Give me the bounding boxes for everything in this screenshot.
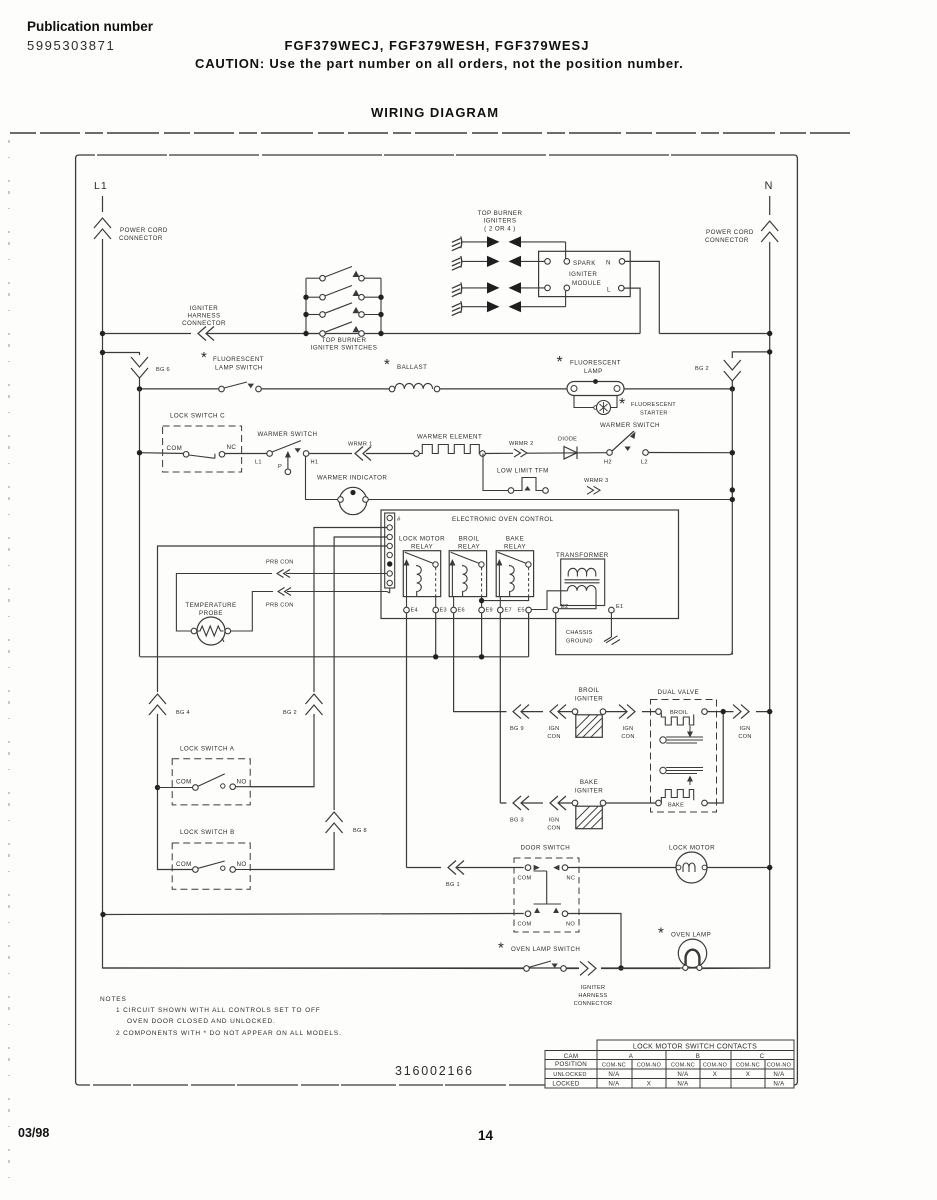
- svg-text:LOW LIMIT TFM: LOW LIMIT TFM: [497, 468, 549, 475]
- svg-text:OVEN DOOR CLOSED AND UNLOCKED.: OVEN DOOR CLOSED AND UNLOCKED.: [127, 1018, 276, 1025]
- svg-text:TEMPERATURE: TEMPERATURE: [185, 602, 236, 609]
- svg-text:BG 2: BG 2: [283, 710, 297, 716]
- svg-text:POSITION: POSITION: [555, 1061, 587, 1068]
- svg-text:E3: E3: [440, 608, 447, 614]
- svg-text:WARMER ELEMENT: WARMER ELEMENT: [417, 434, 482, 441]
- svg-text:OVEN LAMP SWITCH: OVEN LAMP SWITCH: [511, 946, 580, 953]
- svg-text:PRB CON: PRB CON: [266, 560, 294, 566]
- svg-text:LOCK SWITCH A: LOCK SWITCH A: [180, 746, 235, 753]
- svg-text:BG 9: BG 9: [510, 726, 524, 732]
- svg-text:BG 1: BG 1: [446, 882, 460, 888]
- svg-text:BAKE: BAKE: [580, 779, 598, 786]
- svg-text:2 COMPONENTS WITH * DO NOT AP: 2 COMPONENTS WITH * DO NOT APPEAR ON ALL…: [116, 1030, 342, 1037]
- svg-text:COM-NO: COM-NO: [703, 1063, 727, 1069]
- svg-text:PRB CON: PRB CON: [266, 603, 294, 609]
- svg-text:( 2 OR 4 ): ( 2 OR 4 ): [484, 226, 516, 233]
- svg-text:CONNECTOR: CONNECTOR: [182, 320, 226, 327]
- svg-text:*: *: [384, 356, 390, 373]
- svg-text:*: *: [498, 940, 504, 957]
- svg-text:FLUORESCENT: FLUORESCENT: [213, 356, 264, 363]
- svg-text:IGNITER: IGNITER: [569, 271, 597, 278]
- svg-text:X: X: [713, 1071, 717, 1078]
- svg-text:E6: E6: [458, 608, 465, 614]
- svg-text:IGN: IGN: [623, 726, 634, 732]
- svg-text:IGNITER: IGNITER: [575, 788, 603, 795]
- svg-text:TOP BURNER: TOP BURNER: [322, 337, 367, 344]
- svg-text:NC: NC: [227, 444, 237, 451]
- svg-text:*: *: [658, 925, 664, 942]
- svg-text:BG 6: BG 6: [156, 367, 170, 373]
- svg-text:BAKE: BAKE: [668, 803, 684, 809]
- svg-text:FLUORESCENT: FLUORESCENT: [631, 402, 676, 408]
- svg-text:N: N: [765, 180, 773, 192]
- svg-text:*: *: [557, 354, 563, 371]
- svg-text:BG 8: BG 8: [353, 828, 367, 834]
- svg-text:NC: NC: [567, 876, 576, 882]
- svg-text:N/A: N/A: [677, 1071, 689, 1078]
- svg-text:IGNITER SWITCHES: IGNITER SWITCHES: [311, 345, 378, 352]
- svg-text:LOCK SWITCH B: LOCK SWITCH B: [180, 829, 235, 836]
- svg-text:WRMR 1: WRMR 1: [348, 442, 372, 448]
- svg-text:LOCK MOTOR SWITCH CONTACTS: LOCK MOTOR SWITCH CONTACTS: [633, 1044, 757, 1051]
- svg-text:N/A: N/A: [773, 1071, 785, 1078]
- svg-text:SPARK: SPARK: [573, 260, 596, 267]
- svg-text:DOOR SWITCH: DOOR SWITCH: [521, 845, 571, 852]
- svg-text:TRANSFORMER: TRANSFORMER: [556, 552, 609, 559]
- svg-text:WRMR 3: WRMR 3: [584, 478, 608, 484]
- svg-text:ELECTRONIC OVEN CONTROL: ELECTRONIC OVEN CONTROL: [452, 516, 554, 523]
- svg-text:CONNECTOR: CONNECTOR: [705, 237, 749, 244]
- svg-text:1 CIRCUIT SHOWN WITH ALL CONT: 1 CIRCUIT SHOWN WITH ALL CONTROLS SET TO…: [116, 1007, 321, 1014]
- svg-text:STARTER: STARTER: [640, 411, 668, 417]
- svg-text:E2: E2: [561, 604, 568, 610]
- svg-text:E5: E5: [518, 608, 525, 614]
- svg-text:BROIL: BROIL: [459, 536, 480, 543]
- svg-text:FGF379WECJ, FGF379WESH, FGF379: FGF379WECJ, FGF379WESH, FGF379WESJ: [285, 38, 590, 53]
- svg-text:N/A: N/A: [677, 1081, 689, 1088]
- svg-text:DIODE: DIODE: [558, 437, 577, 443]
- svg-text:E4: E4: [411, 608, 418, 614]
- svg-text:DUAL VALVE: DUAL VALVE: [658, 689, 700, 696]
- svg-text:IGNITER: IGNITER: [190, 305, 218, 312]
- svg-text:L: L: [607, 287, 611, 294]
- svg-text:X: X: [647, 1081, 651, 1088]
- svg-text:BROIL: BROIL: [670, 710, 688, 716]
- svg-text:*: *: [619, 396, 625, 413]
- svg-text:CONNECTOR: CONNECTOR: [574, 1001, 613, 1007]
- svg-text:E9: E9: [486, 608, 493, 614]
- svg-text:IGN: IGN: [740, 726, 751, 732]
- svg-text:BAKE: BAKE: [506, 536, 524, 543]
- svg-text:NOTES: NOTES: [100, 996, 127, 1003]
- svg-text:PROBE: PROBE: [199, 610, 223, 617]
- svg-text:L1: L1: [94, 180, 108, 192]
- svg-text:CAUTION: Use the part number: CAUTION: Use the part number on all orde…: [195, 56, 683, 71]
- svg-text:BALLAST: BALLAST: [397, 364, 427, 371]
- svg-text:14: 14: [478, 1128, 494, 1143]
- svg-text:CON: CON: [547, 734, 560, 740]
- svg-text:NO: NO: [237, 861, 247, 868]
- svg-text:BG 2: BG 2: [695, 366, 709, 372]
- svg-text:BROIL: BROIL: [579, 687, 600, 694]
- svg-text:COM: COM: [176, 779, 192, 786]
- svg-text:H2: H2: [604, 460, 612, 466]
- svg-text:RELAY: RELAY: [458, 544, 480, 551]
- svg-text:316002166: 316002166: [395, 1064, 474, 1078]
- svg-text:IGN: IGN: [549, 818, 560, 824]
- svg-text:IGN: IGN: [549, 726, 560, 732]
- svg-text:HARNESS: HARNESS: [578, 993, 607, 999]
- svg-text:HARNESS: HARNESS: [187, 313, 220, 320]
- svg-text:*: *: [201, 349, 207, 366]
- svg-text:FLUORESCENT: FLUORESCENT: [570, 360, 621, 367]
- svg-text:GROUND: GROUND: [566, 639, 593, 645]
- svg-text:LOCK MOTOR: LOCK MOTOR: [669, 845, 715, 852]
- svg-text:LOCKED: LOCKED: [552, 1081, 579, 1088]
- svg-text:L2: L2: [641, 460, 648, 466]
- svg-text:LAMP SWITCH: LAMP SWITCH: [215, 365, 263, 372]
- svg-text:WARMER SWITCH: WARMER SWITCH: [600, 422, 660, 429]
- svg-text:COM-NO: COM-NO: [767, 1063, 791, 1069]
- svg-text:WRMR 2: WRMR 2: [509, 441, 533, 447]
- svg-text:Publication number: Publication number: [27, 19, 154, 34]
- svg-text:L1: L1: [255, 460, 262, 466]
- svg-text:C: C: [760, 1053, 765, 1060]
- svg-text:#: #: [397, 517, 401, 523]
- svg-text:IGNITERS: IGNITERS: [484, 218, 517, 225]
- svg-text:WARMER SWITCH: WARMER SWITCH: [258, 431, 318, 438]
- svg-text:X: X: [746, 1071, 750, 1078]
- svg-text:5995303871: 5995303871: [27, 38, 115, 53]
- svg-text:LOCK SWITCH C: LOCK SWITCH C: [170, 413, 225, 420]
- svg-text:MODULE: MODULE: [572, 280, 601, 287]
- svg-text:E1: E1: [616, 604, 623, 610]
- svg-text:CON: CON: [738, 734, 751, 740]
- svg-text:RELAY: RELAY: [504, 544, 526, 551]
- svg-text:N/A: N/A: [608, 1081, 620, 1088]
- svg-text:NO: NO: [566, 922, 575, 928]
- svg-text:BG 3: BG 3: [510, 818, 524, 824]
- svg-text:COM: COM: [176, 861, 192, 868]
- svg-text:IGNITER: IGNITER: [575, 696, 603, 703]
- svg-text:BG 4: BG 4: [176, 710, 190, 716]
- svg-text:CON: CON: [547, 826, 560, 832]
- svg-text:03/98: 03/98: [18, 1126, 49, 1140]
- svg-text:P: P: [278, 464, 282, 470]
- svg-text:COM: COM: [167, 445, 183, 452]
- svg-text:TOP BURNER: TOP BURNER: [478, 210, 523, 217]
- svg-text:WARMER INDICATOR: WARMER INDICATOR: [317, 475, 387, 482]
- svg-text:H1: H1: [311, 460, 319, 466]
- svg-text:N/A: N/A: [773, 1081, 785, 1088]
- svg-text:UNLOCKED: UNLOCKED: [553, 1072, 586, 1078]
- svg-text:LOCK MOTOR: LOCK MOTOR: [399, 536, 445, 543]
- svg-text:CAM: CAM: [564, 1053, 579, 1060]
- svg-text:COM-NC: COM-NC: [671, 1063, 695, 1069]
- svg-text:CON: CON: [621, 734, 634, 740]
- svg-text:N: N: [606, 260, 611, 267]
- svg-text:OVEN LAMP: OVEN LAMP: [671, 932, 711, 939]
- svg-text:COM-NC: COM-NC: [602, 1063, 626, 1069]
- svg-text:IGNITER: IGNITER: [581, 985, 606, 991]
- svg-text:COM: COM: [518, 922, 532, 928]
- svg-text:NO: NO: [237, 779, 247, 786]
- svg-text:POWER CORD: POWER CORD: [120, 227, 168, 234]
- svg-text:N/A: N/A: [608, 1071, 620, 1078]
- svg-text:COM: COM: [518, 876, 532, 882]
- svg-text:COM-NO: COM-NO: [637, 1063, 661, 1069]
- svg-text:POWER CORD: POWER CORD: [706, 229, 754, 236]
- svg-text:E7: E7: [505, 608, 512, 614]
- svg-text:CHASSIS: CHASSIS: [566, 630, 593, 636]
- svg-text:WIRING DIAGRAM: WIRING DIAGRAM: [371, 105, 499, 120]
- svg-text:A: A: [629, 1053, 634, 1060]
- svg-text:CONNECTOR: CONNECTOR: [119, 235, 163, 242]
- svg-text:B: B: [696, 1053, 700, 1060]
- svg-text:COM-NC: COM-NC: [736, 1063, 760, 1069]
- svg-text:RELAY: RELAY: [411, 544, 433, 551]
- svg-text:LAMP: LAMP: [584, 368, 603, 375]
